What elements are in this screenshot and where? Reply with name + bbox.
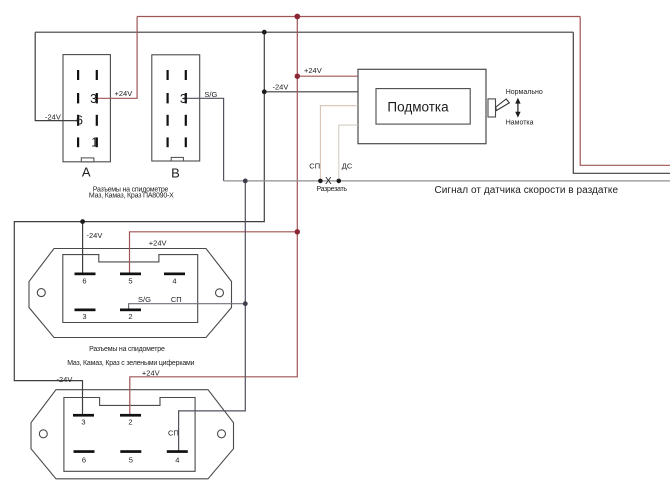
svg-text:+24V: +24V [304,66,322,75]
octagon connector 2 body [31,390,234,479]
svg-text:4: 4 [175,455,179,464]
junction dot +24V winder branch [295,74,300,79]
wire +24V top bus [137,16,580,18]
junction dot -24V top [262,30,267,35]
svg-text:+24V: +24V [149,238,167,247]
octagon connector 1 body [29,249,232,338]
svg-text:+24V: +24V [142,368,160,377]
octagon1 pin 5 [120,273,141,276]
junction dot +24V top [294,14,300,20]
svg-text:-24V: -24V [87,231,103,240]
wire +24V right drop to harness [580,17,670,166]
svg-text:+24V: +24V [115,89,133,98]
svg-text:B: B [171,165,180,180]
wire -24V top bus [35,31,573,33]
wire +24V branch to winder box [297,75,358,77]
connector A body [63,55,110,162]
octagon1 pin 6 [75,273,96,276]
wire octagon1 pin6 stem [82,222,84,274]
octagon2 pin 6 [74,450,95,453]
svg-text:3: 3 [81,417,85,426]
svg-text:3: 3 [82,312,86,321]
winder box inner [376,89,470,125]
octagon1 pin 2 [120,309,141,312]
switch body [488,99,496,117]
wire +24V from connector A pin 3 [97,17,137,99]
octagon2 left mounting hole [39,430,47,438]
svg-text:СП: СП [168,428,179,437]
connector B body [152,55,200,161]
octagon2 pin 5 [120,450,141,453]
junction dot СП on signal line [318,179,323,184]
wire -24V from connector A pin 6 [35,32,79,120]
octagon1 pin 3 [75,309,96,312]
svg-text:Сигнал от датчика скорости в р: Сигнал от датчика скорости в раздатке [435,185,619,196]
wire S/G from connector B pin 3 [186,98,224,181]
svg-text:-24V: -24V [273,83,289,92]
svg-text:6: 6 [82,276,86,285]
wire speed signal line [224,180,670,182]
octagon1 right mounting hole [216,289,224,297]
wire -24V right drop to harness [573,32,670,173]
wire ДС to winder box [339,125,358,181]
svg-text:A: A [82,165,91,180]
svg-text:СП: СП [171,295,182,304]
junction dot S/G signal line [243,179,248,184]
junction dot ДС on signal line [337,179,342,184]
octagon2 pin 2 [120,414,141,417]
wire СП to winder box [320,106,358,181]
junction dot -24V octagon1 pin6 [80,219,85,224]
wire S/G octagon1 pin 2 [129,304,246,309]
connector A pin slots [77,70,98,147]
svg-text:S/G: S/G [204,90,217,99]
octagon2 pin 3 [73,414,94,417]
svg-text:ДС: ДС [342,162,353,171]
octagon2 pin 4 [167,450,188,453]
octagon2 inner shell [64,398,195,472]
junction dot -24V winder branch [262,89,267,94]
connector A keying tab [81,158,94,162]
wire -24V branch to winder box [264,91,358,93]
octagon1 inner shell [63,255,198,323]
svg-text:Маз, Камаз, Краз с зелеными ци: Маз, Камаз, Краз с зелеными циферками [67,360,194,367]
svg-text:5: 5 [129,455,133,464]
junction dot +24V octagon1 pin5 [295,229,300,234]
svg-text:Намотка: Намотка [506,120,534,127]
svg-text:4: 4 [172,276,176,285]
svg-text:Подмотка: Подмотка [387,100,449,115]
svg-text:2: 2 [128,312,132,321]
connector B pin slots [167,70,187,147]
octagon1 pin 4 [164,273,185,276]
svg-text:S/G: S/G [138,295,151,304]
svg-text:-24V: -24V [57,375,73,384]
octagon1 left mounting hole [37,289,45,297]
svg-text:Маз, Камаз, Краз ПА8090-Х: Маз, Камаз, Краз ПА8090-Х [89,193,174,200]
svg-text:СП: СП [309,162,320,171]
svg-text:6: 6 [82,455,86,464]
svg-text:5: 5 [128,276,132,285]
svg-text:3: 3 [180,92,187,106]
switch lever [496,99,510,111]
svg-text:Нормально: Нормально [506,89,543,96]
switch arrow [515,98,520,118]
svg-text:3: 3 [90,92,97,106]
octagon2 right mounting hole [218,430,226,438]
wire S/G net vertical to octagon2 pin 4 [179,181,246,451]
svg-text:2: 2 [128,417,132,426]
wire -24V vertical branch to octagon connectors [14,32,264,415]
winder box outer [358,69,486,143]
connector B keying tab [171,157,183,161]
junction dot S/G octagon1 [243,301,248,306]
svg-text:Разъемы на спидометре: Разъемы на спидометре [89,346,165,353]
svg-text:-24V: -24V [45,112,61,121]
wire +24V vertical bus to octagon2 pin 2 [130,17,297,416]
svg-text:Разрезать: Разрезать [317,186,348,193]
svg-text:6: 6 [76,113,83,127]
svg-text:1: 1 [91,135,98,149]
wire +24V branch to octagon1 pin 5 [130,232,298,274]
